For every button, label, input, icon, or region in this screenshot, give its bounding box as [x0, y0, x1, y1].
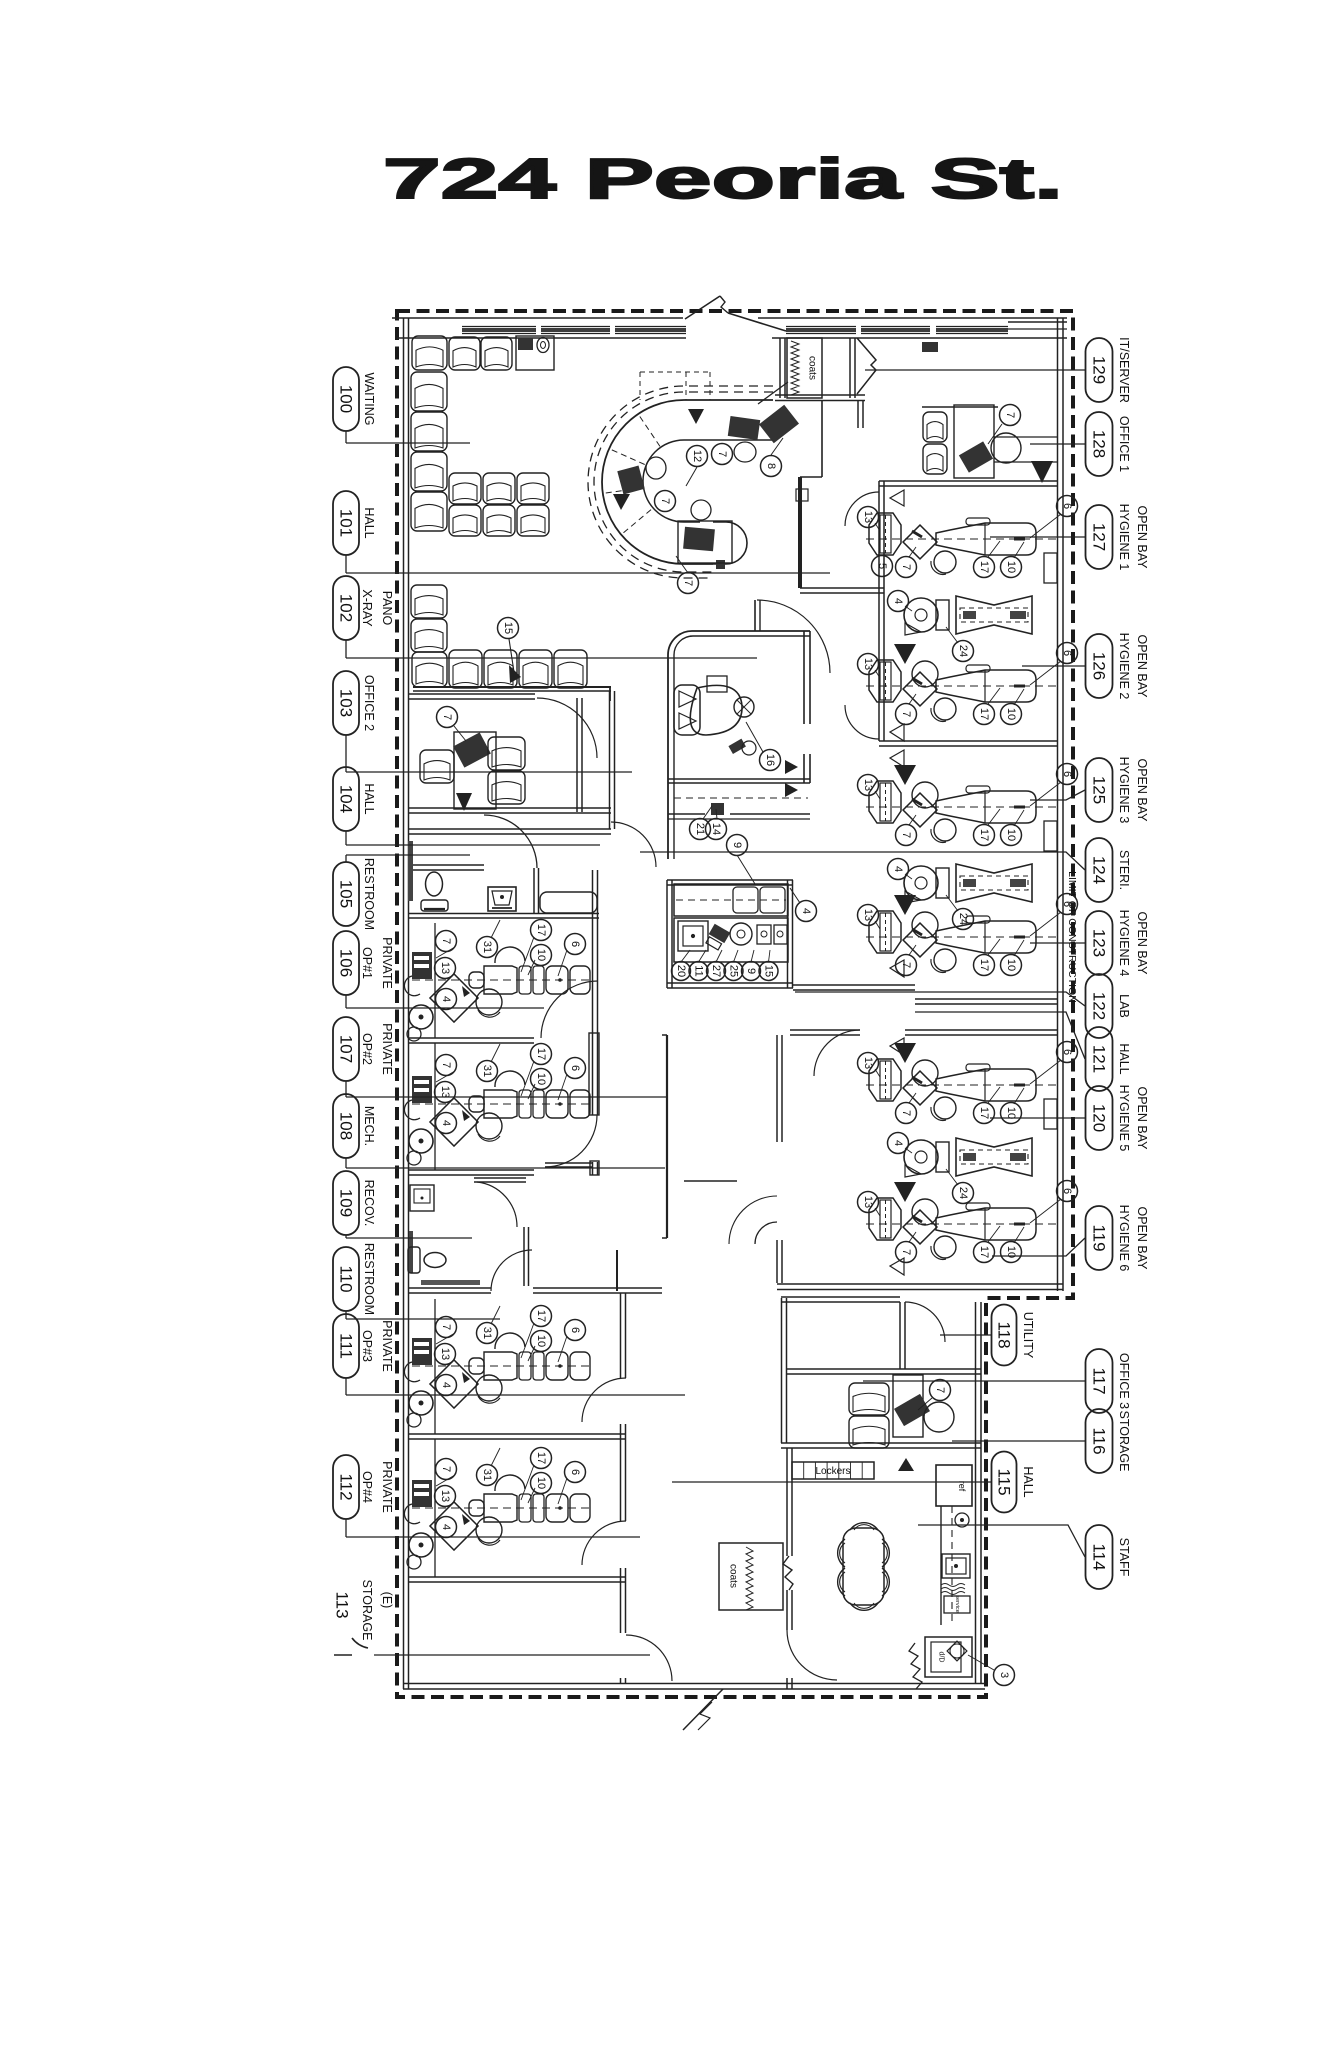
svg-text:10: 10	[535, 1073, 547, 1085]
svg-text:d/D: d/D	[938, 1652, 945, 1663]
svg-text:13: 13	[862, 779, 874, 791]
svg-text:RESTROOM: RESTROOM	[362, 858, 376, 930]
svg-text:4: 4	[440, 1524, 452, 1530]
svg-text:PRIVATE: PRIVATE	[380, 1461, 394, 1513]
svg-text:6: 6	[569, 1469, 581, 1475]
svg-text:HALL: HALL	[1117, 1043, 1131, 1074]
svg-text:24: 24	[957, 645, 969, 657]
svg-text:17: 17	[978, 708, 990, 720]
svg-text:7: 7	[900, 711, 912, 717]
svg-text:Lockers: Lockers	[815, 1466, 850, 1477]
svg-text:coats: coats	[807, 356, 818, 380]
svg-text:OFFICE 2: OFFICE 2	[362, 675, 376, 731]
svg-text:101: 101	[337, 509, 356, 537]
svg-text:118: 118	[995, 1321, 1014, 1348]
svg-text:7: 7	[900, 1110, 912, 1116]
svg-text:4: 4	[892, 598, 904, 604]
svg-text:7: 7	[440, 938, 452, 944]
svg-text:7: 7	[716, 451, 728, 457]
svg-text:117: 117	[1090, 1367, 1109, 1394]
svg-text:7: 7	[440, 1062, 452, 1068]
svg-text:3: 3	[998, 1672, 1010, 1678]
svg-text:31: 31	[481, 1327, 493, 1339]
svg-text:4: 4	[440, 1120, 452, 1126]
svg-text:HYGIENE 1: HYGIENE 1	[1117, 504, 1131, 571]
svg-text:106: 106	[337, 949, 356, 977]
svg-text:15: 15	[763, 965, 775, 977]
svg-text:6: 6	[1061, 650, 1073, 656]
svg-text:13: 13	[439, 962, 451, 974]
svg-text:WAITING: WAITING	[362, 372, 376, 425]
svg-text:HALL: HALL	[1021, 1466, 1035, 1497]
svg-text:128: 128	[1090, 430, 1109, 458]
svg-text:112: 112	[337, 1473, 356, 1500]
svg-text:PRIVATE: PRIVATE	[380, 1320, 394, 1372]
svg-text:123: 123	[1090, 929, 1109, 957]
svg-text:OPEN BAY: OPEN BAY	[1135, 912, 1149, 976]
svg-text:coats: coats	[728, 1564, 739, 1588]
svg-text:RECOV.: RECOV.	[362, 1180, 376, 1227]
svg-text:11: 11	[693, 965, 705, 976]
svg-text:129: 129	[1090, 356, 1109, 384]
svg-text:13: 13	[862, 511, 874, 523]
svg-text:OFFICE 1: OFFICE 1	[1117, 416, 1131, 472]
svg-text:10: 10	[1005, 1107, 1017, 1119]
svg-text:107: 107	[337, 1035, 356, 1063]
svg-text:HYGIENE 3: HYGIENE 3	[1117, 757, 1131, 824]
svg-text:9: 9	[731, 842, 743, 848]
svg-text:9: 9	[745, 968, 757, 974]
svg-text:104: 104	[337, 785, 356, 813]
svg-text:10: 10	[1005, 561, 1017, 573]
svg-text:X-RAY: X-RAY	[360, 589, 374, 627]
svg-text:16: 16	[764, 754, 776, 766]
svg-text:17: 17	[978, 561, 990, 573]
svg-text:120: 120	[1090, 1104, 1109, 1132]
svg-text:121: 121	[1090, 1045, 1109, 1073]
svg-text:17: 17	[535, 924, 547, 936]
svg-text:31: 31	[481, 941, 493, 953]
svg-text:105: 105	[337, 880, 356, 908]
svg-text:13: 13	[862, 1196, 874, 1208]
svg-text:13: 13	[862, 909, 874, 921]
svg-text:122: 122	[1090, 992, 1109, 1020]
svg-text:8: 8	[765, 463, 777, 469]
svg-text:17: 17	[535, 1310, 547, 1322]
svg-text:7: 7	[440, 1466, 452, 1472]
svg-text:HALL: HALL	[362, 783, 376, 814]
svg-text:102: 102	[337, 594, 356, 622]
svg-text:PRIVATE: PRIVATE	[380, 937, 394, 989]
svg-text:5: 5	[876, 563, 888, 569]
svg-text:6: 6	[569, 941, 581, 947]
svg-text:IT/SERVER: IT/SERVER	[1117, 337, 1131, 403]
svg-text:115: 115	[995, 1468, 1014, 1495]
svg-text:126: 126	[1090, 652, 1109, 680]
svg-text:OPEN BAY: OPEN BAY	[1135, 1087, 1149, 1151]
svg-text:HYGIENE 4: HYGIENE 4	[1117, 910, 1131, 977]
svg-text:7: 7	[682, 580, 694, 586]
svg-text:13: 13	[439, 1348, 451, 1360]
svg-text:OP#4: OP#4	[360, 1471, 374, 1503]
svg-text:4: 4	[440, 1382, 452, 1388]
svg-text:HYGIENE 2: HYGIENE 2	[1117, 633, 1131, 700]
svg-text:OP#1: OP#1	[360, 947, 374, 979]
svg-text:109: 109	[337, 1189, 356, 1217]
svg-text:7: 7	[440, 1324, 452, 1330]
svg-text:13: 13	[439, 1086, 451, 1098]
svg-text:13: 13	[862, 1057, 874, 1069]
svg-text:13: 13	[439, 1490, 451, 1502]
svg-text:114: 114	[1090, 1543, 1109, 1570]
svg-text:STORAGE: STORAGE	[1117, 1411, 1131, 1472]
svg-text:PRIVATE: PRIVATE	[380, 1023, 394, 1075]
svg-text:125: 125	[1090, 776, 1109, 804]
svg-text:6: 6	[569, 1065, 581, 1071]
svg-text:31: 31	[481, 1065, 493, 1077]
svg-text:OFFICE 3: OFFICE 3	[1117, 1353, 1131, 1409]
svg-text:15: 15	[502, 622, 514, 634]
svg-text:LAB: LAB	[1117, 994, 1131, 1018]
svg-text:13: 13	[862, 658, 874, 670]
svg-text:HALL: HALL	[362, 507, 376, 538]
svg-text:12: 12	[691, 450, 703, 462]
svg-text:(E): (E)	[380, 1592, 394, 1609]
svg-text:LIMIT OF CONSTRUCTION: LIMIT OF CONSTRUCTION	[1066, 871, 1078, 1003]
svg-text:127: 127	[1090, 523, 1109, 551]
svg-text:4: 4	[892, 866, 904, 872]
svg-text:UTILITY: UTILITY	[1021, 1312, 1035, 1359]
svg-text:7: 7	[900, 832, 912, 838]
svg-text:7: 7	[900, 564, 912, 570]
svg-text:OPEN BAY: OPEN BAY	[1135, 1207, 1149, 1271]
svg-text:17: 17	[978, 829, 990, 841]
svg-text:111: 111	[337, 1333, 356, 1359]
svg-text:100: 100	[337, 385, 356, 413]
svg-text:HYGIENE 5: HYGIENE 5	[1117, 1085, 1131, 1152]
svg-text:7: 7	[934, 1387, 946, 1393]
svg-text:17: 17	[978, 959, 990, 971]
svg-text:6: 6	[1061, 503, 1073, 509]
svg-text:STERI.: STERI.	[1117, 850, 1131, 890]
svg-text:724 Peoria St.: 724 Peoria St.	[383, 147, 1063, 211]
svg-text:PANO: PANO	[380, 591, 394, 626]
svg-text:24: 24	[957, 913, 969, 925]
svg-text:7: 7	[1004, 412, 1016, 418]
svg-text:27: 27	[710, 965, 722, 977]
svg-text:108: 108	[337, 1112, 356, 1140]
svg-text:OP#3: OP#3	[360, 1330, 374, 1362]
svg-text:103: 103	[337, 689, 356, 717]
svg-text:17: 17	[535, 1452, 547, 1464]
svg-text:10: 10	[1005, 959, 1017, 971]
svg-text:21: 21	[694, 823, 706, 835]
svg-text:4: 4	[800, 908, 812, 914]
svg-text:4: 4	[440, 996, 452, 1002]
svg-text:10: 10	[1005, 829, 1017, 841]
svg-text:HYGIENE 6: HYGIENE 6	[1117, 1205, 1131, 1272]
svg-text:20: 20	[675, 965, 687, 977]
svg-text:6: 6	[1061, 771, 1073, 777]
svg-text:OPEN BAY: OPEN BAY	[1135, 759, 1149, 823]
svg-text:113: 113	[333, 1591, 352, 1618]
svg-text:OP#2: OP#2	[360, 1033, 374, 1065]
svg-text:STORAGE: STORAGE	[360, 1580, 374, 1641]
svg-text:RESTROOM: RESTROOM	[362, 1243, 376, 1315]
svg-text:10: 10	[535, 949, 547, 961]
svg-text:17: 17	[978, 1107, 990, 1119]
svg-text:STAFF: STAFF	[1117, 1538, 1131, 1577]
svg-text:17: 17	[535, 1048, 547, 1060]
svg-text:MECH.: MECH.	[362, 1106, 376, 1146]
svg-text:25: 25	[728, 965, 740, 977]
svg-text:service: service	[954, 1595, 960, 1612]
svg-text:OPEN BAY: OPEN BAY	[1135, 506, 1149, 570]
svg-text:7: 7	[900, 962, 912, 968]
svg-text:7: 7	[659, 498, 671, 504]
svg-text:31: 31	[481, 1469, 493, 1481]
svg-text:110: 110	[337, 1265, 356, 1292]
svg-text:24: 24	[957, 1187, 969, 1199]
svg-text:7: 7	[441, 714, 453, 720]
svg-text:10: 10	[535, 1477, 547, 1489]
svg-text:6: 6	[1061, 1188, 1073, 1194]
svg-text:7: 7	[900, 1249, 912, 1255]
svg-text:10: 10	[1005, 708, 1017, 720]
svg-text:119: 119	[1090, 1224, 1109, 1251]
svg-text:OPEN BAY: OPEN BAY	[1135, 635, 1149, 699]
svg-text:6: 6	[1061, 1049, 1073, 1055]
svg-text:4: 4	[892, 1140, 904, 1146]
svg-text:6: 6	[569, 1327, 581, 1333]
svg-text:17: 17	[978, 1246, 990, 1258]
svg-text:116: 116	[1090, 1427, 1109, 1454]
svg-text:10: 10	[535, 1335, 547, 1347]
svg-text:14: 14	[710, 823, 722, 835]
svg-text:124: 124	[1090, 856, 1109, 884]
